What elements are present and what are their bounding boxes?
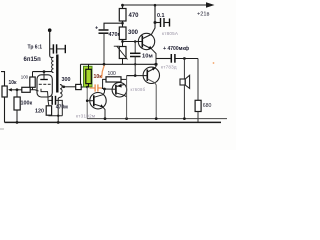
svg-text:100к: 100к xyxy=(21,101,33,107)
wire bottom output line xyxy=(87,118,227,120)
wire Q4 collector net xyxy=(126,76,128,119)
svg-text:+: + xyxy=(163,46,166,52)
wire to Q3 base node xyxy=(102,87,105,90)
node base wire left xyxy=(121,40,124,43)
wire anode xyxy=(33,71,53,73)
node output-emitters xyxy=(154,63,157,66)
feedback resistor green highlight xyxy=(84,66,93,87)
node output-10m xyxy=(134,63,136,65)
node cap tap xyxy=(121,22,124,25)
node top rail / R470 xyxy=(121,4,124,7)
wire stub to Q2 base xyxy=(134,64,136,75)
node feedback bottom xyxy=(86,86,89,89)
svg-text:120: 120 xyxy=(35,109,44,115)
svg-text:+: + xyxy=(95,26,98,32)
supply terminal dot xyxy=(48,28,52,32)
wire Q2 base xyxy=(127,75,148,77)
node top rail / 0.1 branch xyxy=(154,4,157,7)
transistor Q2 kt783 xyxy=(143,67,159,83)
node Q2 base wire xyxy=(134,74,137,77)
capacitor 470m cathode xyxy=(51,96,53,105)
wire output node corner xyxy=(80,64,82,84)
resistor 100 anode xyxy=(30,77,35,87)
transformer secondary winding xyxy=(58,85,63,99)
input wire xyxy=(1,72,5,86)
transistor Q1 kt805A xyxy=(138,33,154,49)
resistor 120 cathode xyxy=(47,100,50,105)
node wiper xyxy=(16,88,19,91)
wire 0.1 branch vertical xyxy=(154,5,156,23)
transistor Q3 kt3102 lower xyxy=(90,93,106,109)
resistor 470 xyxy=(122,5,124,9)
resistor 680 xyxy=(195,100,201,111)
wire Q1 base xyxy=(123,41,143,43)
wire Q2 base corner xyxy=(127,75,136,77)
svg-text:кт608б: кт608б xyxy=(131,87,146,92)
transistor Q4 driver xyxy=(112,82,127,97)
capacitor 0.1 xyxy=(155,22,160,24)
wire C470m down to output node xyxy=(103,33,105,64)
wire top supply rail xyxy=(123,4,209,6)
node Q3 collector / Q4 base xyxy=(103,88,106,91)
transformer primary winding xyxy=(50,56,54,73)
transformer core xyxy=(56,55,58,93)
capacitor 4700mkf xyxy=(156,58,171,60)
svg-text:Тр 6:1: Тр 6:1 xyxy=(28,45,43,51)
cathode node xyxy=(48,99,52,101)
node 0.1 xyxy=(154,21,157,24)
svg-text:100: 100 xyxy=(108,71,117,77)
wire R470-R300 link xyxy=(122,21,124,27)
capacitor top coupling xyxy=(50,48,53,50)
resistor 300 series box xyxy=(76,84,82,89)
wire cathode bottom link xyxy=(49,114,62,117)
wire down to 680 xyxy=(197,59,199,101)
stray orange dot xyxy=(213,62,215,64)
svg-text:4700мкф: 4700мкф xyxy=(168,45,190,52)
svg-text:470м: 470м xyxy=(56,105,68,111)
svg-text:300: 300 xyxy=(62,77,71,83)
supply arrow +21v xyxy=(206,2,215,8)
capacitor 470m electrolytic xyxy=(99,29,109,31)
wire output node horizontal xyxy=(81,63,157,65)
svg-text:100: 100 xyxy=(21,75,29,80)
wire terminal down xyxy=(49,30,51,55)
svg-text:10к: 10к xyxy=(9,80,18,86)
svg-text:10к: 10к xyxy=(94,74,103,80)
resistor grid series xyxy=(17,89,22,91)
node anode xyxy=(43,70,46,73)
resistor 100 driver xyxy=(106,77,121,82)
svg-text:300: 300 xyxy=(128,30,139,36)
trimmer resistor bias xyxy=(119,47,126,59)
speaker xyxy=(183,59,185,80)
ground rail bottom xyxy=(5,121,222,123)
svg-text:кт805А: кт805А xyxy=(162,31,179,36)
svg-text:680: 680 xyxy=(203,103,212,109)
tube 6p15p xyxy=(37,75,52,97)
capacitor 10m xyxy=(134,42,136,54)
node speaker tap xyxy=(183,57,186,60)
svg-text:0.1: 0.1 xyxy=(157,13,165,19)
resistor 300 xyxy=(119,27,126,40)
svg-text:кт783д: кт783д xyxy=(161,64,177,69)
gray edge mark bottom left xyxy=(0,128,4,130)
svg-text:10м: 10м xyxy=(142,54,153,60)
svg-text:+21в: +21в xyxy=(197,12,209,18)
potentiometer 10k xyxy=(2,86,7,97)
wire to C470m xyxy=(104,23,123,29)
wire secondary output xyxy=(63,86,76,88)
svg-text:6п15п: 6п15п xyxy=(24,57,42,63)
svg-text:470: 470 xyxy=(129,13,140,19)
wire secondary to ground xyxy=(57,99,59,123)
node rail dots xyxy=(104,117,107,120)
resistor 100k xyxy=(16,90,18,97)
node output-C470m xyxy=(103,63,106,66)
svg-text:кт3102м: кт3102м xyxy=(76,113,95,118)
vertical wire TA base net xyxy=(86,87,88,119)
orange annotation capacitor xyxy=(90,66,105,92)
node base wire cap tap xyxy=(134,40,137,43)
